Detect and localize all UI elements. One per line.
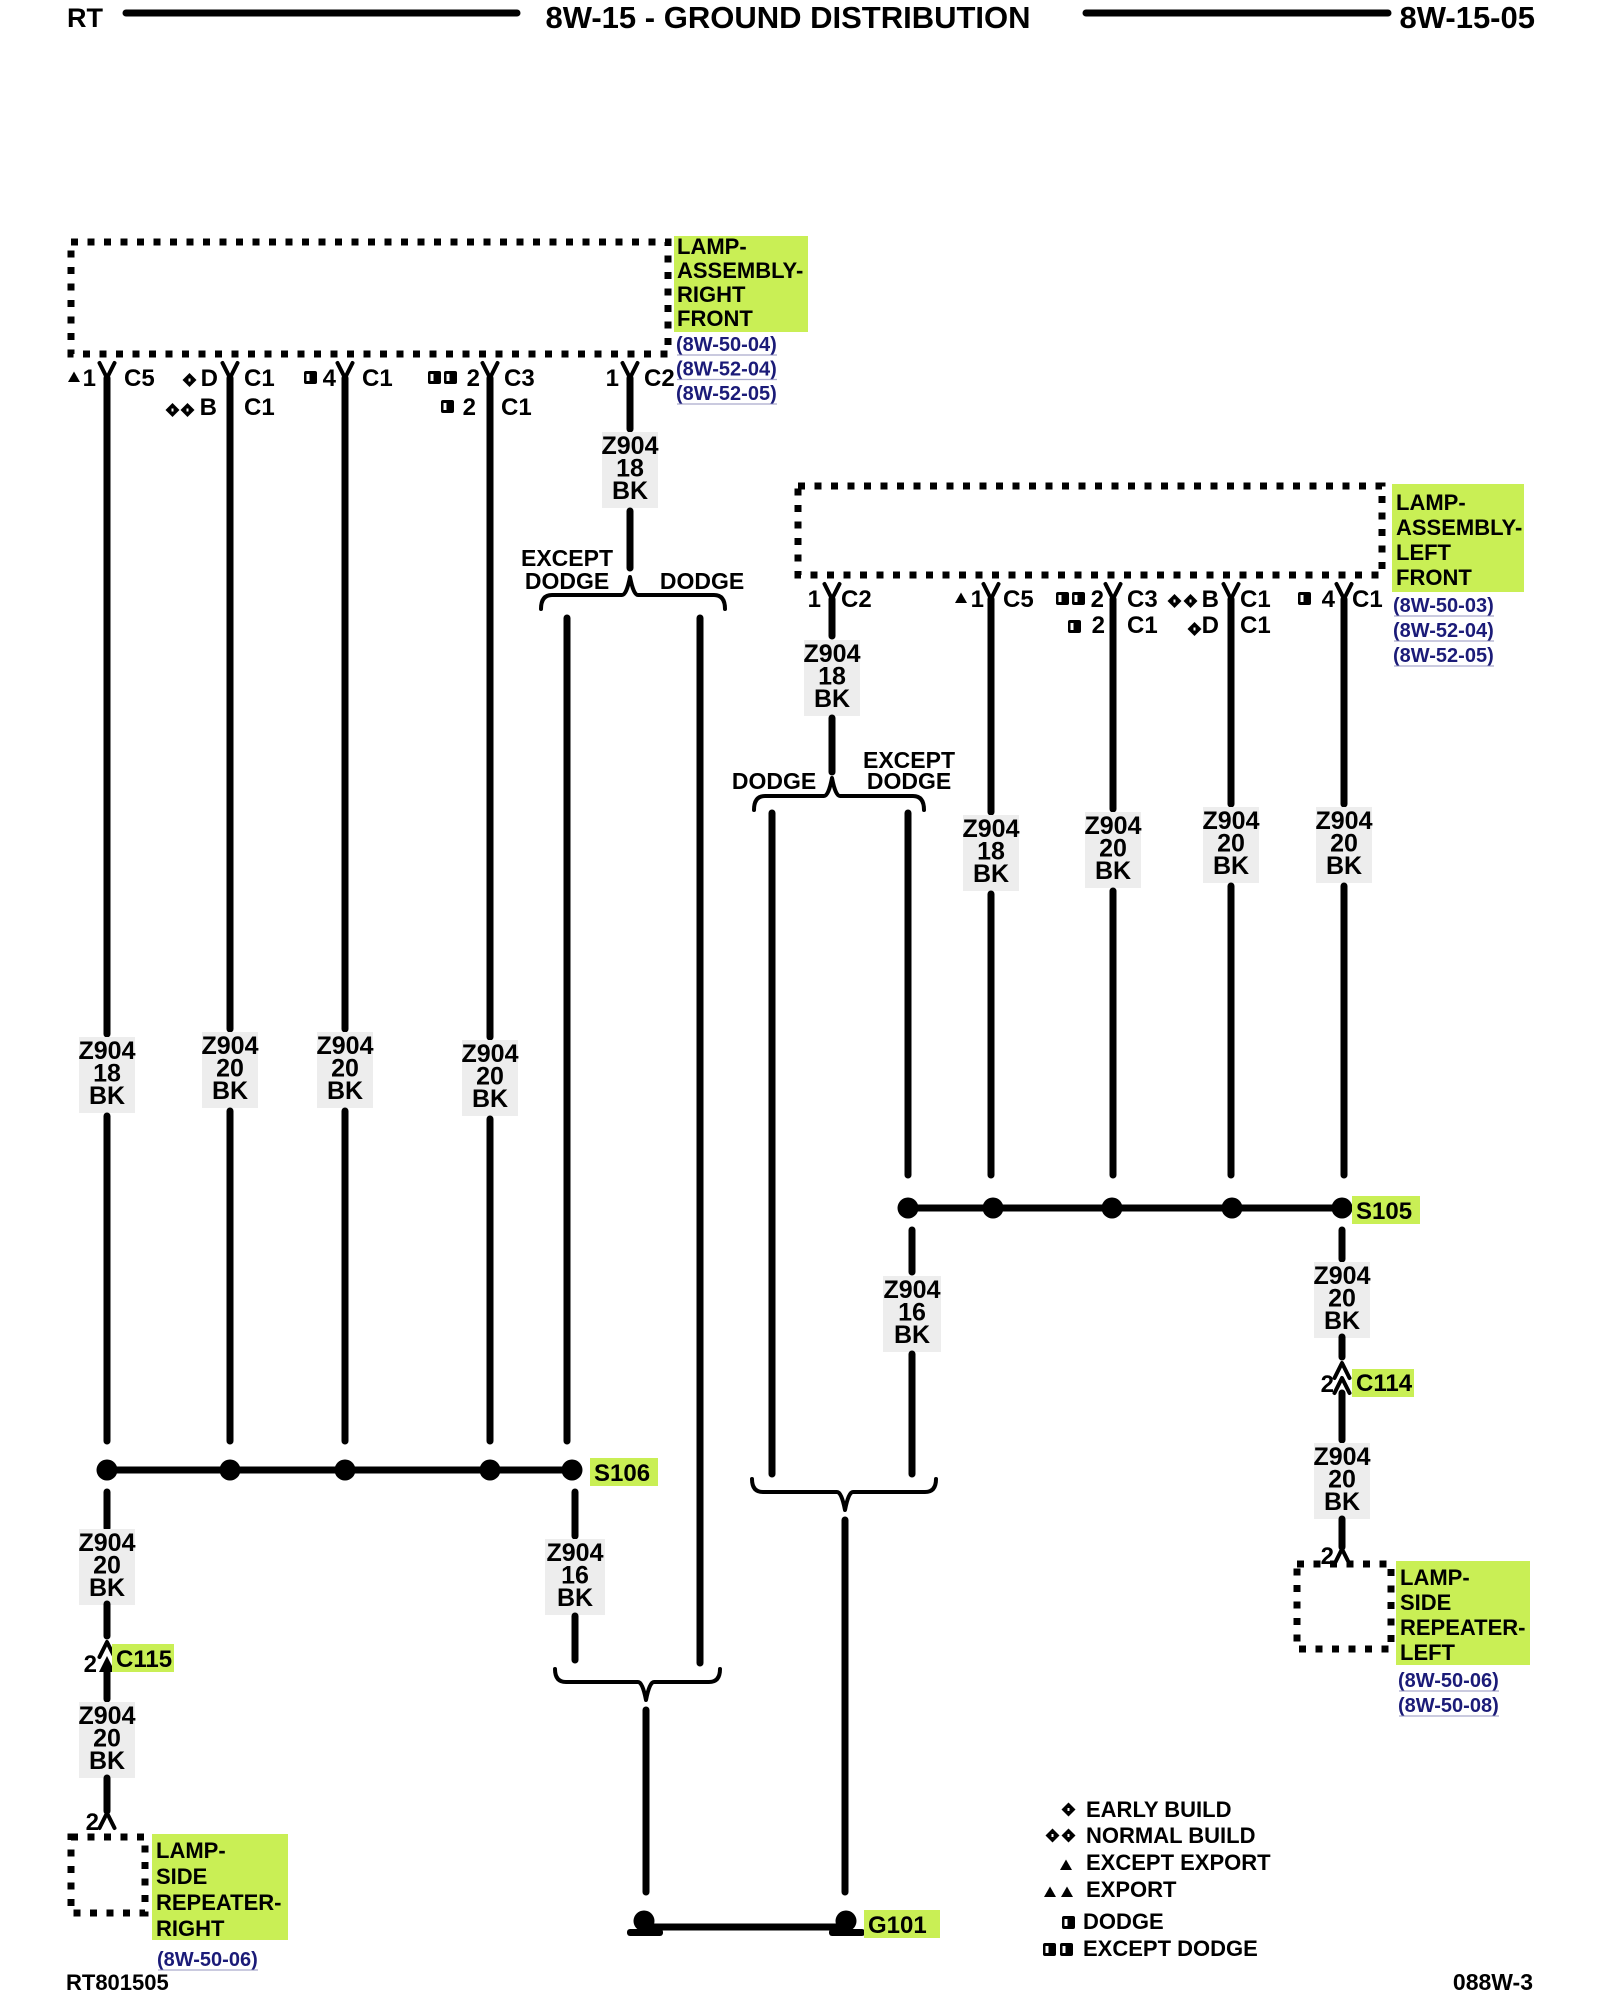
svg-text:S105: S105 [1356, 1198, 1412, 1225]
svg-text:REPEATER-: REPEATER- [1400, 1615, 1526, 1640]
svg-text:4: 4 [323, 365, 337, 392]
svg-text:BK: BK [612, 477, 648, 505]
svg-text:C1: C1 [362, 365, 393, 392]
svg-text:BK: BK [1213, 852, 1249, 880]
svg-text:EXCEPT EXPORT: EXCEPT EXPORT [1086, 1850, 1271, 1875]
svg-text:EXCEPT DODGE: EXCEPT DODGE [1083, 1936, 1258, 1961]
svg-text:LEFT: LEFT [1400, 1640, 1456, 1665]
svg-text:8W-15 - GROUND DISTRIBUTION: 8W-15 - GROUND DISTRIBUTION [545, 0, 1030, 35]
svg-text:C5: C5 [1003, 586, 1034, 613]
svg-text:1: 1 [83, 365, 96, 392]
svg-text:RT801505: RT801505 [66, 1970, 169, 1995]
svg-text:1: 1 [606, 365, 619, 392]
svg-text:S106: S106 [594, 1460, 650, 1487]
svg-text:C3: C3 [504, 365, 535, 392]
svg-text:1: 1 [808, 586, 821, 613]
svg-text:(8W-50-03): (8W-50-03) [1393, 595, 1494, 617]
svg-text:8W-15-05: 8W-15-05 [1400, 0, 1536, 35]
svg-text:DODGE: DODGE [867, 768, 951, 794]
svg-text:BK: BK [973, 860, 1009, 888]
svg-text:(8W-52-05): (8W-52-05) [1393, 645, 1494, 667]
svg-text:C2: C2 [841, 586, 872, 613]
svg-text:BK: BK [1324, 1307, 1360, 1335]
svg-text:G101: G101 [868, 1912, 927, 1939]
svg-text:C115: C115 [116, 1646, 172, 1673]
svg-text:RT: RT [67, 3, 103, 33]
svg-text:SIDE: SIDE [1400, 1590, 1451, 1615]
svg-text:C1: C1 [1240, 612, 1271, 639]
svg-text:2: 2 [1321, 1371, 1334, 1398]
svg-text:ASSEMBLY-: ASSEMBLY- [1396, 515, 1522, 540]
svg-text:BK: BK [1324, 1488, 1360, 1516]
svg-text:BK: BK [814, 685, 850, 713]
svg-text:BK: BK [89, 1082, 125, 1110]
svg-text:LAMP-: LAMP- [156, 1838, 226, 1863]
svg-text:BK: BK [1326, 852, 1362, 880]
svg-text:C1: C1 [501, 394, 532, 421]
svg-text:088W-3: 088W-3 [1453, 1969, 1533, 1995]
svg-text:LAMP-: LAMP- [1396, 490, 1466, 515]
svg-text:B: B [1202, 586, 1219, 613]
svg-text:2: 2 [463, 394, 476, 421]
svg-text:DODGE: DODGE [660, 568, 744, 594]
svg-text:C1: C1 [244, 394, 275, 421]
svg-text:C1: C1 [1127, 612, 1158, 639]
svg-text:NORMAL BUILD: NORMAL BUILD [1086, 1823, 1255, 1848]
svg-text:BK: BK [894, 1321, 930, 1349]
svg-text:C2: C2 [644, 365, 675, 392]
svg-text:SIDE: SIDE [156, 1864, 207, 1889]
svg-text:FRONT: FRONT [677, 306, 753, 331]
svg-text:B: B [200, 394, 217, 421]
svg-text:(8W-52-04): (8W-52-04) [1393, 620, 1494, 642]
svg-text:BK: BK [89, 1747, 125, 1775]
svg-text:C1: C1 [1240, 586, 1271, 613]
svg-text:2: 2 [467, 365, 480, 392]
svg-text:C1: C1 [1352, 586, 1383, 613]
svg-text:BK: BK [1095, 857, 1131, 885]
svg-text:EARLY BUILD: EARLY BUILD [1086, 1797, 1231, 1822]
svg-text:C3: C3 [1127, 586, 1158, 613]
svg-text:(8W-50-06): (8W-50-06) [157, 1949, 258, 1971]
svg-text:DODGE: DODGE [525, 568, 609, 594]
svg-text:D: D [1202, 612, 1219, 639]
svg-text:LAMP-: LAMP- [677, 234, 747, 259]
svg-text:BK: BK [472, 1085, 508, 1113]
svg-text:2: 2 [1091, 586, 1104, 613]
svg-text:LAMP-: LAMP- [1400, 1565, 1470, 1590]
svg-text:EXPORT: EXPORT [1086, 1877, 1177, 1902]
svg-text:1: 1 [971, 586, 984, 613]
svg-text:(8W-50-08): (8W-50-08) [1398, 1695, 1499, 1717]
svg-text:2: 2 [1092, 612, 1105, 639]
svg-text:(8W-52-05): (8W-52-05) [676, 383, 777, 405]
svg-text:RIGHT: RIGHT [677, 282, 746, 307]
svg-text:(8W-50-06): (8W-50-06) [1398, 1670, 1499, 1692]
svg-text:LEFT: LEFT [1396, 540, 1452, 565]
svg-text:(8W-50-04): (8W-50-04) [676, 334, 777, 356]
svg-text:2: 2 [84, 1651, 97, 1678]
svg-text:D: D [201, 365, 218, 392]
svg-text:BK: BK [327, 1077, 363, 1105]
svg-text:BK: BK [89, 1574, 125, 1602]
svg-text:BK: BK [212, 1077, 248, 1105]
svg-text:C1: C1 [244, 365, 275, 392]
svg-text:DODGE: DODGE [732, 768, 816, 794]
svg-text:(8W-52-04): (8W-52-04) [676, 359, 777, 381]
svg-text:REPEATER-: REPEATER- [156, 1890, 282, 1915]
svg-text:C5: C5 [124, 365, 155, 392]
svg-text:C114: C114 [1356, 1370, 1413, 1397]
svg-text:2: 2 [86, 1809, 99, 1836]
svg-text:DODGE: DODGE [1083, 1909, 1164, 1934]
svg-text:BK: BK [557, 1584, 593, 1612]
svg-text:RIGHT: RIGHT [156, 1916, 225, 1941]
svg-text:ASSEMBLY-: ASSEMBLY- [677, 258, 803, 283]
svg-text:4: 4 [1322, 586, 1336, 613]
svg-text:FRONT: FRONT [1396, 565, 1472, 590]
